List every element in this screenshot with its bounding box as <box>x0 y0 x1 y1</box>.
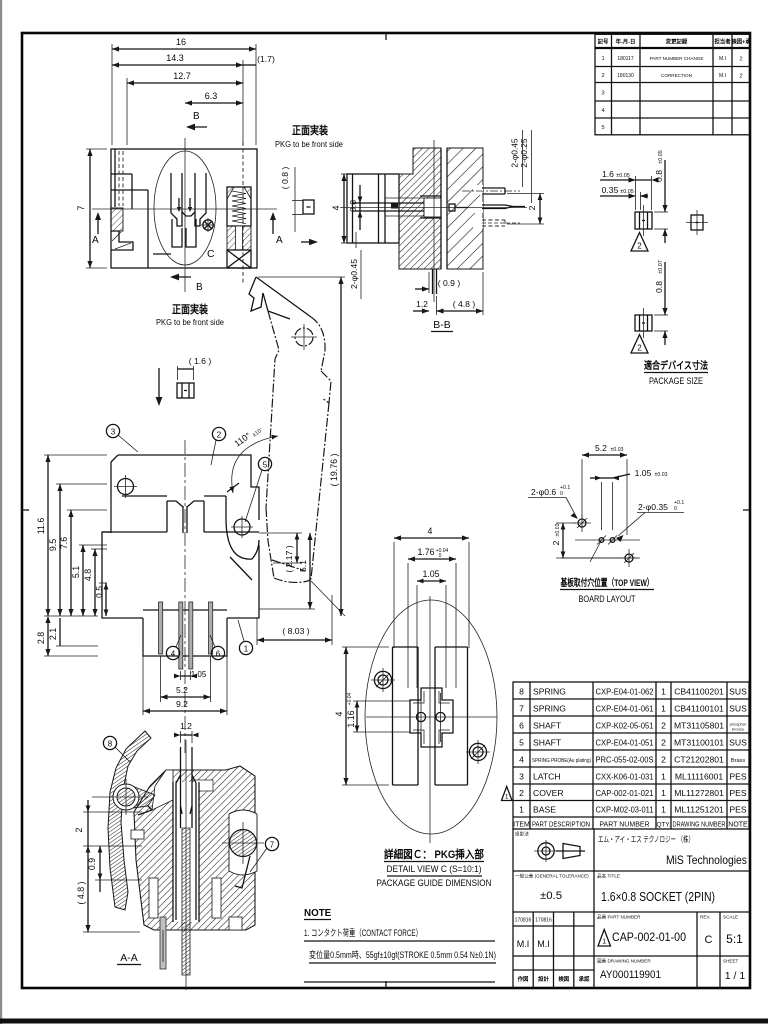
B-B gap + probe tip <box>441 148 468 269</box>
svg-text:図番 DRAWING NUMBER: 図番 DRAWING NUMBER <box>597 958 651 965</box>
svg-text:PRC-055-02-00S: PRC-055-02-00S <box>596 755 654 765</box>
svg-text:CB41100101: CB41100101 <box>674 704 724 714</box>
svg-text:11.6: 11.6 <box>36 518 46 535</box>
svg-text:SPRING PROBE(Au plating): SPRING PROBE(Au plating) <box>532 758 591 764</box>
DETAIL C: right wall <box>435 647 468 785</box>
svg-text:4: 4 <box>331 205 341 210</box>
A-A latch arm (sectioned, steep hatch) <box>108 731 155 910</box>
svg-text:7: 7 <box>76 205 86 210</box>
svg-text:2: 2 <box>661 721 666 731</box>
svg-text:2: 2 <box>739 73 742 79</box>
label 2-phi0.45 (B-B) <box>349 232 361 299</box>
svg-text:投影法: 投影法 <box>515 831 529 838</box>
svg-text:7: 7 <box>519 704 524 714</box>
svg-text:( 2.17 ): ( 2.17 ) <box>284 545 294 572</box>
A-A latch pivot circle <box>92 779 148 815</box>
svg-text:2-φ0.35: 2-φ0.35 <box>638 502 668 512</box>
svg-text:M.I: M.I <box>719 56 726 62</box>
CENTRAL VIEW cover plate <box>111 455 259 533</box>
dim 1.2 / (4.8) B-B bottom <box>413 272 483 315</box>
svg-text:4: 4 <box>601 108 604 114</box>
svg-text:4.8: 4.8 <box>83 569 93 581</box>
BOARD LAYOUT: dim 1.05 <box>590 468 668 530</box>
B-B centerline <box>433 140 435 302</box>
A-A dim (4.8) <box>76 858 140 932</box>
dim 7 left <box>76 149 107 268</box>
svg-text:CXX-K06-01-031: CXX-K06-01-031 <box>596 772 654 782</box>
dim 5.1 (right) <box>259 533 315 609</box>
svg-text:3: 3 <box>111 428 116 437</box>
svg-text:MT31105801: MT31105801 <box>674 721 724 731</box>
svg-text:設計: 設計 <box>538 975 549 983</box>
DETAIL C titles <box>377 848 492 888</box>
svg-text:変更記録: 変更記録 <box>666 38 688 46</box>
left dim 0.5 <box>94 583 108 616</box>
PACKAGE SIZE: dim 0.35 <box>600 185 648 210</box>
left dim stack: 11.6 <box>36 455 107 616</box>
svg-text:品名 TITLE: 品名 TITLE <box>597 873 620 880</box>
PACKAGE SIZE: device package 1 <box>635 205 652 236</box>
svg-text:1: 1 <box>505 794 509 801</box>
svg-text:0: 0 <box>674 506 677 512</box>
svg-text:9.5: 9.5 <box>48 539 58 551</box>
front view screw circle <box>201 218 215 232</box>
bottom protrusion <box>143 610 227 656</box>
PACKAGE SIZE: dim 0.8±0.07 <box>654 260 668 345</box>
svg-text:SPRING: SPRING <box>533 704 566 714</box>
svg-text:1.05: 1.05 <box>422 569 439 579</box>
BOARD LAYOUT: dim 2±0.03 <box>551 523 623 558</box>
svg-text:1.05: 1.05 <box>635 468 652 478</box>
svg-text:5: 5 <box>601 125 604 131</box>
svg-text:±0.03: ±0.03 <box>611 447 624 453</box>
LATCH phantom outline (open position) <box>249 277 331 582</box>
svg-text:作図: 作図 <box>518 975 529 983</box>
revision triangle marker 1 at COVER row <box>502 787 513 801</box>
labels 2-phi0.45 / 2-phi0.25 (right pins) <box>510 130 532 203</box>
center guide block <box>167 501 204 533</box>
svg-text:0: 0 <box>439 553 442 559</box>
DETAIL C: dim 1.76 <box>408 547 456 688</box>
svg-text:DRAWING NUMBER: DRAWING NUMBER <box>673 822 726 829</box>
A-A SECTION: main hatched body <box>134 766 255 930</box>
svg-text:CB41100201: CB41100201 <box>674 687 724 697</box>
svg-text:6: 6 <box>519 721 524 731</box>
svg-text:6: 6 <box>216 650 221 659</box>
balloon 6 <box>210 635 225 660</box>
svg-text:5:1: 5:1 <box>726 932 743 946</box>
svg-text:CXP-M02-03-011: CXP-M02-03-011 <box>596 805 654 815</box>
dim (1.7) <box>243 54 275 65</box>
svg-text:SUS: SUS <box>729 704 747 714</box>
svg-text:SPRING: SPRING <box>533 687 566 697</box>
DETAIL C: shaft hole upper-left <box>371 668 395 692</box>
svg-text:検図+承: 検図+承 <box>731 38 751 46</box>
svg-text:年-月-日: 年-月-日 <box>616 38 636 46</box>
svg-text:PART DESCRIPTION: PART DESCRIPTION <box>532 822 590 829</box>
svg-text:REV.: REV. <box>700 915 710 920</box>
svg-text:(1.7): (1.7) <box>257 54 275 64</box>
svg-text:16: 16 <box>176 37 186 47</box>
svg-text:1.6: 1.6 <box>602 169 614 179</box>
front view center contact slots <box>171 173 206 247</box>
svg-text:一般公差 (GENERAL TOLERANCE): 一般公差 (GENERAL TOLERANCE) <box>515 873 589 880</box>
svg-text:A: A <box>276 235 283 246</box>
svg-text:2: 2 <box>661 755 666 765</box>
PACKAGE SIZE: triangle 2 (upper) <box>631 233 648 252</box>
section arrow A right <box>270 212 283 246</box>
PACKAGE SIZE: triangle 2 (lower) <box>631 335 648 354</box>
left dim 4.8 <box>83 549 107 616</box>
third angle projection symbol <box>534 840 585 862</box>
small arrow right <box>301 239 318 245</box>
dim 16 <box>112 37 256 145</box>
BOARD LAYOUT: hole phi0.6 lower-right <box>620 549 638 567</box>
svg-text:B: B <box>196 282 203 293</box>
svg-text:7.6: 7.6 <box>59 537 69 549</box>
svg-text:0.8: 0.8 <box>654 281 664 293</box>
B-B SECTION: left pin block <box>347 174 447 243</box>
dim (2.17) <box>259 533 302 573</box>
PACKAGE SIZE column: dim 1.6 <box>600 169 659 210</box>
B-B label <box>431 319 453 332</box>
svg-text:±0.03: ±0.03 <box>555 523 561 536</box>
svg-text:( 0.9 ): ( 0.9 ) <box>438 278 461 288</box>
cover hole left <box>114 475 137 498</box>
PACKAGE SIZE: small land target <box>686 210 708 235</box>
B-B bottom pin (dashed) <box>482 220 520 226</box>
svg-text:4: 4 <box>428 526 433 536</box>
svg-text:2: 2 <box>74 827 84 832</box>
svg-text:170816: 170816 <box>535 918 552 924</box>
svg-text:2: 2 <box>519 788 524 798</box>
revision table <box>595 34 751 135</box>
revision triangle in part number cell <box>598 930 611 947</box>
svg-text:2: 2 <box>661 738 666 748</box>
svg-text:CORRECTION: CORRECTION <box>661 73 692 78</box>
svg-text:C: C <box>207 248 215 260</box>
svg-text:M.I: M.I <box>537 939 550 949</box>
svg-text:5.1: 5.1 <box>71 566 81 578</box>
dim (8.03) <box>257 595 332 645</box>
DETAIL C: dim 1.05 <box>417 569 446 688</box>
B-B top pin (phantom) <box>462 188 520 194</box>
svg-text:エム・アイ・エス テクノロジー （株）: エム・アイ・エス テクノロジー （株） <box>598 834 694 844</box>
balloon 7 <box>250 837 279 872</box>
svg-text:0: 0 <box>560 491 563 497</box>
label PKG front side (upper) <box>275 124 343 149</box>
svg-text:SHAFT: SHAFT <box>533 738 562 748</box>
svg-text:ML11251201: ML11251201 <box>674 805 724 815</box>
svg-text:ITEM: ITEM <box>513 822 530 829</box>
A-A dim 2 <box>74 800 142 858</box>
front view left hatched steps <box>111 208 133 250</box>
svg-text:NOTE: NOTE <box>304 908 332 919</box>
scan artifact: bottom black bar <box>0 1019 768 1024</box>
BOARD LAYOUT: hole phi0.6 upper-left <box>573 514 591 532</box>
svg-text:SHEET: SHEET <box>723 959 739 964</box>
svg-text:SUS: SUS <box>729 738 747 748</box>
frame centering tick bottom <box>385 981 387 988</box>
svg-text:( 8.03 ): ( 8.03 ) <box>282 626 309 636</box>
svg-text:±0.05: ±0.05 <box>616 173 629 179</box>
svg-text:MiS Technologies: MiS Technologies <box>666 853 747 867</box>
section arrow B top <box>186 111 207 130</box>
svg-text:2-φ0.45: 2-φ0.45 <box>349 259 359 289</box>
mini insertion diagram: package <box>177 383 194 398</box>
front view center ellipse (detail C boundary) <box>154 151 216 265</box>
svg-text:CXP-K02-05-051: CXP-K02-05-051 <box>596 721 654 731</box>
BOARD LAYOUT: dim 5.2 <box>582 443 627 535</box>
svg-text:Brass: Brass <box>731 758 746 764</box>
A-A dim 0.9 <box>87 846 142 892</box>
DETAIL C: dim 1.16 <box>346 692 410 732</box>
svg-text:検図: 検図 <box>558 975 569 983</box>
svg-text:2: 2 <box>551 540 561 545</box>
svg-text:2-φ0.6: 2-φ0.6 <box>531 487 556 497</box>
svg-text:PKG to be front side: PKG to be front side <box>275 139 343 149</box>
svg-text:±0.05: ±0.05 <box>620 189 633 195</box>
BOARD LAYOUT: label 2-phi0.6 <box>528 485 578 519</box>
svg-text:品番 PART NUMBER: 品番 PART NUMBER <box>597 914 641 921</box>
svg-text:変位量0.5mm時、55gf±10gf(STROKE 0.5: 変位量0.5mm時、55gf±10gf(STROKE 0.5mm 0.54 N±… <box>309 949 496 960</box>
NOTE block <box>304 908 496 982</box>
dim 6.3 <box>185 91 243 106</box>
B-B middle pin <box>340 205 527 209</box>
svg-text:2: 2 <box>739 56 742 62</box>
svg-text:1.16: 1.16 <box>346 710 356 727</box>
svg-text:5.1: 5.1 <box>298 560 308 572</box>
svg-text:+0.04: +0.04 <box>347 692 353 705</box>
svg-text:( 4.8 ): ( 4.8 ) <box>76 881 86 904</box>
A-A lower small pin <box>160 917 166 969</box>
svg-text:14.3: 14.3 <box>166 53 184 63</box>
svg-text:PES: PES <box>729 772 746 782</box>
svg-text:ML11116001: ML11116001 <box>675 772 723 782</box>
svg-text:5.2: 5.2 <box>595 443 607 453</box>
svg-text:1: 1 <box>601 56 604 62</box>
frame centering tick top <box>385 33 387 40</box>
svg-text:CXP-E04-01-061: CXP-E04-01-061 <box>596 704 654 714</box>
svg-text:担当者: 担当者 <box>714 38 731 46</box>
svg-text:±0.07: ±0.07 <box>658 260 664 273</box>
svg-text:CT21202801: CT21202801 <box>674 755 724 765</box>
svg-text:適合デバイス寸法: 適合デバイス寸法 <box>644 359 708 372</box>
dim 14.3 <box>112 53 243 145</box>
svg-text:NOTE: NOTE <box>728 822 748 829</box>
svg-text:C: C <box>705 934 713 946</box>
A-A probe pin lower extension <box>185 740 187 990</box>
bottom dim 1.05 <box>174 670 207 680</box>
bottom dim 5.2 <box>161 656 211 702</box>
svg-text:3: 3 <box>601 91 604 97</box>
svg-text:SHAFT: SHAFT <box>533 721 562 731</box>
bottom pins (gray bars) <box>159 602 213 669</box>
svg-text:1. コンタクト荷重（CONTACT FORCE）: 1. コンタクト荷重（CONTACT FORCE） <box>304 927 422 938</box>
svg-text:5: 5 <box>263 461 268 470</box>
svg-text:BASE: BASE <box>533 805 556 815</box>
svg-text:PACKAGE SIZE: PACKAGE SIZE <box>649 376 703 386</box>
DETAIL C: big ellipse <box>365 600 497 834</box>
svg-text:5: 5 <box>519 738 524 748</box>
central view centerline <box>184 440 186 755</box>
parts list table <box>513 682 749 829</box>
B-B lower pin below body <box>433 269 437 294</box>
svg-text:5.2: 5.2 <box>176 685 188 695</box>
svg-text:2: 2 <box>527 205 537 210</box>
svg-text:2: 2 <box>637 344 642 353</box>
svg-text:承認: 承認 <box>579 975 590 983</box>
svg-text:PKG to be front side: PKG to be front side <box>156 317 224 327</box>
svg-text:1: 1 <box>661 704 666 714</box>
svg-text:CAP-002-01-021: CAP-002-01-021 <box>596 788 654 798</box>
balloon 8 <box>103 736 130 762</box>
left dim 7.6 <box>59 510 107 616</box>
svg-text:2-φ0.25: 2-φ0.25 <box>519 138 529 168</box>
dim 12.7 <box>127 71 243 145</box>
label PKG front side (central) <box>156 303 224 327</box>
BOARD LAYOUT: label 2-phi0.35 <box>590 500 684 562</box>
svg-text:1: 1 <box>244 645 249 654</box>
DETAIL C: dim 4 left <box>334 647 389 785</box>
scan artifact: left gray edge line <box>0 0 2 1024</box>
svg-text:2-φ0.45: 2-φ0.45 <box>510 138 520 168</box>
svg-text:DETAIL VIEW C (S=10:1): DETAIL VIEW C (S=10:1) <box>387 864 482 874</box>
svg-text:PART NUMBER CHANGE: PART NUMBER CHANGE <box>650 56 704 61</box>
latch pivot boss <box>226 516 259 580</box>
bottom dim 9.2 <box>143 618 227 715</box>
svg-text:8: 8 <box>108 740 113 749</box>
balloon 1 <box>238 620 253 655</box>
svg-text:ML11272801: ML11272801 <box>674 788 724 798</box>
svg-text:( 0.8 ): ( 0.8 ) <box>280 167 290 190</box>
svg-text:基板取付穴位置（TOP VIEW）: 基板取付穴位置（TOP VIEW） <box>560 577 654 589</box>
svg-text:±0.03: ±0.03 <box>655 472 668 478</box>
balloon 5 <box>245 457 272 522</box>
dim (0.9) B-B bottom <box>415 272 460 293</box>
BOARD LAYOUT: centerlines <box>561 540 640 558</box>
svg-text:正面実装: 正面実装 <box>292 124 328 137</box>
A-A dim 1.2 <box>174 721 199 743</box>
svg-text:COVER: COVER <box>533 788 564 798</box>
dim 4 (B-B left) <box>331 174 347 243</box>
balloon 4 <box>166 635 181 660</box>
svg-text:2.8: 2.8 <box>36 632 46 644</box>
svg-text:MT31100101: MT31100101 <box>674 738 724 748</box>
DETAIL C: pin circles <box>416 693 445 742</box>
svg-text:6.3: 6.3 <box>205 91 218 101</box>
left dim 9.5 <box>48 484 107 616</box>
svg-text:A-A: A-A <box>120 952 138 964</box>
front view centerlines <box>92 138 277 292</box>
svg-text:CXP-E04-01-062: CXP-E04-01-062 <box>596 687 654 697</box>
dim (19.76) <box>258 277 345 616</box>
B-B hatched block B <box>447 148 483 269</box>
svg-text:7: 7 <box>270 841 275 850</box>
small package piece with (0.8) <box>280 167 314 232</box>
PACKAGE SIZE: dim 0.8±0.05 <box>654 150 668 243</box>
svg-text:M.I: M.I <box>517 939 530 949</box>
svg-text:0.35: 0.35 <box>602 185 619 195</box>
A-A spring coil circle (7) <box>222 822 264 888</box>
parts list rows text <box>513 687 748 829</box>
balloon 2 <box>211 427 226 465</box>
svg-text:12.7: 12.7 <box>173 71 191 81</box>
DETAIL C: dim 4 top <box>394 526 469 648</box>
svg-text:1: 1 <box>661 805 666 815</box>
svg-text:1: 1 <box>519 805 524 815</box>
svg-text:1.76: 1.76 <box>417 547 434 557</box>
svg-text:1 / 1: 1 / 1 <box>725 970 746 982</box>
svg-text:2.1: 2.1 <box>48 628 58 640</box>
svg-text:0.8: 0.8 <box>348 200 358 212</box>
svg-text:1: 1 <box>661 687 666 697</box>
mini insertion diagram: down arrow <box>156 368 163 406</box>
DETAIL C: left wall <box>393 647 419 785</box>
svg-text:1.05: 1.05 <box>191 670 207 679</box>
dim 2 (right pins) <box>507 194 544 225</box>
svg-text:180117: 180117 <box>617 56 634 62</box>
left dim 5.1 <box>71 545 107 616</box>
B-B hatched block A <box>399 148 447 269</box>
svg-text:3: 3 <box>519 772 524 782</box>
svg-text:170816: 170816 <box>515 918 532 924</box>
svg-text:2: 2 <box>217 431 222 440</box>
title block texts <box>515 831 747 984</box>
svg-text:4: 4 <box>519 755 524 765</box>
svg-text:SCALE: SCALE <box>723 915 738 920</box>
svg-text:AY000119901: AY000119901 <box>600 969 661 981</box>
svg-text:( 4.8 ): ( 4.8 ) <box>453 299 476 309</box>
BOARD LAYOUT: pin holes phi0.35 <box>597 536 617 545</box>
section arrow B bottom <box>170 274 203 293</box>
svg-text:9.2: 9.2 <box>176 699 188 709</box>
svg-text:BOARD LAYOUT: BOARD LAYOUT <box>579 594 637 604</box>
svg-text:CXP-E04-01-051: CXP-E04-01-051 <box>596 738 654 748</box>
section arrow A left <box>92 212 101 246</box>
svg-text:記号: 記号 <box>598 38 609 46</box>
svg-text:B-B: B-B <box>433 319 451 331</box>
svg-text:0.8: 0.8 <box>654 170 664 182</box>
PACKAGE SIZE titles <box>644 359 708 386</box>
svg-text:PES: PES <box>729 805 746 815</box>
svg-text:1: 1 <box>661 772 666 782</box>
svg-text:( 1.6 ): ( 1.6 ) <box>189 356 212 366</box>
frame centering tick left <box>22 509 29 511</box>
svg-text:±0.05: ±0.05 <box>658 150 664 163</box>
left dim 2.8 <box>36 616 98 656</box>
A-A label <box>117 952 141 965</box>
front view right spring block <box>227 187 251 268</box>
svg-text:2: 2 <box>637 242 642 251</box>
svg-text:±0.5: ±0.5 <box>540 890 562 902</box>
A-A center probe pin channel <box>173 747 199 975</box>
svg-text:4: 4 <box>334 711 344 716</box>
svg-text:0.5: 0.5 <box>94 586 104 598</box>
DETAIL C: shaft hole lower-right <box>466 740 490 764</box>
dim 0.8 (B-B pin) <box>348 185 362 230</box>
svg-text:B: B <box>193 111 200 122</box>
balloon 3 <box>106 424 138 452</box>
DETAIL C: center cross cutout <box>410 688 453 747</box>
dim 110 deg arc <box>227 428 278 493</box>
svg-text:1.2: 1.2 <box>416 299 428 309</box>
svg-text:A: A <box>92 235 99 246</box>
svg-text:1: 1 <box>602 939 606 946</box>
svg-text:PES: PES <box>729 788 746 798</box>
central mid band <box>102 496 259 618</box>
svg-text:+0.04: +0.04 <box>436 548 449 554</box>
